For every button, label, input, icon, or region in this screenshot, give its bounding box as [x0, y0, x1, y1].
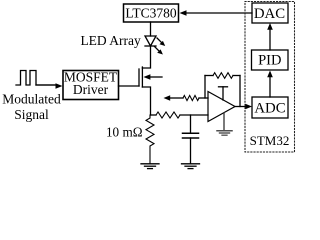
DAC block: [252, 3, 288, 23]
svg-text:LED Array: LED Array: [80, 33, 141, 48]
transistor Q1 body arrow: [150, 76, 162, 78]
wire: [36, 84, 56, 86]
ADC block: [252, 97, 288, 118]
LED D1 light arrow 1: [157, 38, 163, 44]
wire op-amp output to ADC: [235, 106, 247, 108]
feedback right vertical wire: [239, 76, 241, 107]
LTC3780 block U3: [124, 4, 179, 22]
svg-text:ADC: ADC: [254, 100, 285, 116]
modulated signal square-wave symbol: [16, 71, 57, 86]
wire PID to DAC: [269, 29, 271, 50]
LED D1 cathode bar: [145, 45, 156, 47]
MOSFET driver block U2: [63, 71, 119, 100]
capacitor C1 stem: [190, 115, 192, 133]
capacitor C1 plates: [183, 132, 199, 134]
LED D1 light arrow 2: [155, 47, 161, 53]
transistor Q1 channel bar: [141, 67, 143, 87]
resistor R1 10 mOhm sense: [146, 115, 154, 164]
LED D1 triangle: [145, 36, 156, 46]
resistor R2 bottom input: [156, 112, 180, 118]
feedback top rail wire: [205, 75, 213, 77]
PID block: [252, 50, 289, 70]
svg-text:LTC3780: LTC3780: [125, 6, 177, 21]
ground G1: [141, 163, 159, 165]
svg-text:STM32: STM32: [250, 133, 290, 148]
resistor R4 feedback: [213, 73, 233, 79]
wire DAC to LTC3780: [186, 12, 252, 14]
wire C1 to ground: [190, 138, 192, 164]
wire driver to gate: [119, 85, 140, 87]
op-amp U1 triangle: [208, 92, 235, 122]
resistor R3 top input: [183, 95, 199, 100]
wire ADC to PID: [269, 77, 271, 97]
wire R3 to op-amp non-inverting input: [199, 97, 208, 99]
svg-text:DAC: DAC: [254, 6, 285, 22]
op-amp U1 supply tee: [222, 87, 224, 100]
ground G2: [182, 163, 200, 165]
transistor Q1 (N-MOSFET) gate bar: [138, 69, 140, 86]
STM32 dashed enclosure: [245, 2, 295, 153]
svg-text:Driver: Driver: [73, 82, 109, 97]
arrow into MOSFET driver: [56, 83, 63, 89]
transistor Q1 source stub: [142, 87, 150, 115]
op-amp U1 negative supply stub: [223, 113, 225, 131]
transistor Q1 drain stub: [142, 46, 150, 68]
wire R2 to op-amp inverting input: [180, 114, 208, 116]
svg-text:PID: PID: [258, 52, 281, 68]
wire LTC3780 to LED anode: [150, 22, 152, 36]
svg-text:10 mΩ: 10 mΩ: [106, 125, 143, 140]
net arrow at op-amp top input: [164, 95, 171, 100]
wire feedback rail right: [233, 75, 240, 77]
svg-text:Modulated: Modulated: [2, 92, 61, 107]
feedback left vertical wire: [204, 76, 206, 99]
node A sense junction wire: [151, 114, 157, 116]
ground G3: [217, 131, 232, 135]
svg-text:Signal: Signal: [14, 107, 49, 122]
